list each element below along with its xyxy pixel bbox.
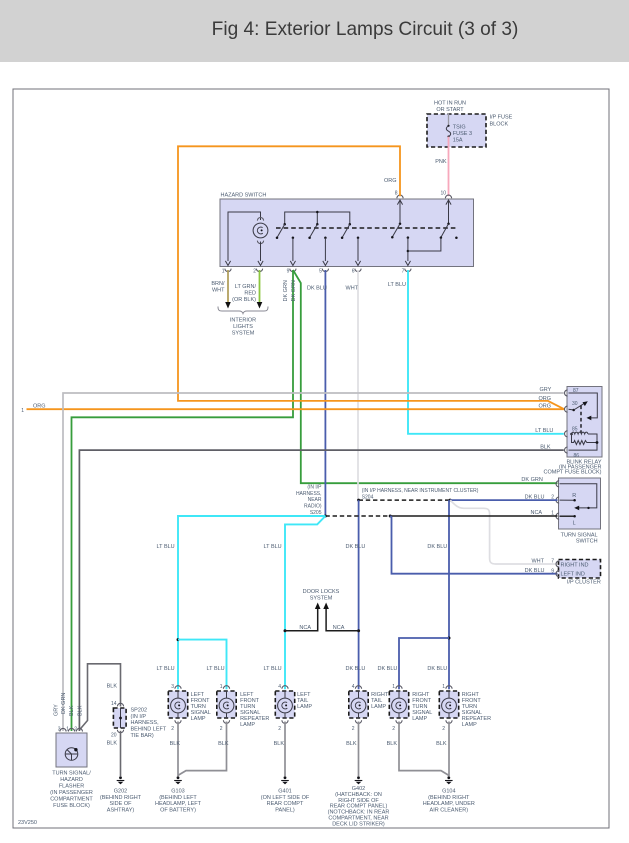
- svg-text:PANEL): PANEL): [275, 807, 295, 813]
- svg-text:LT BLU: LT BLU: [157, 666, 175, 672]
- indicator lamp inside hazard switch: [253, 218, 268, 244]
- svg-text:DK GRN: DK GRN: [521, 477, 542, 483]
- wire LT BLU from pin 7 to blink relay pin 85: [388, 270, 564, 434]
- svg-text:BLK: BLK: [69, 705, 75, 716]
- svg-text:I/P CLUSTER: I/P CLUSTER: [567, 580, 601, 586]
- svg-text:LT BLU: LT BLU: [535, 428, 553, 434]
- svg-text:G202: G202: [114, 789, 127, 795]
- wire BLK from SP202 to ground G202: [107, 731, 121, 776]
- splice S204 label: [362, 488, 479, 501]
- svg-text:5: 5: [319, 269, 322, 275]
- svg-text:R: R: [572, 493, 576, 499]
- label HOT IN RUN OR START: [434, 101, 466, 114]
- svg-text:LAMP: LAMP: [371, 704, 386, 710]
- svg-text:BLK: BLK: [346, 741, 357, 747]
- svg-text:BLK: BLK: [436, 741, 447, 747]
- pin 5 output leg: [323, 237, 328, 266]
- blink relay box: [567, 387, 602, 459]
- fuse value label TSIG FUSE 3 15A: [453, 124, 472, 143]
- relay pin 85 connector arc: [565, 431, 568, 437]
- pin 6 output leg: [355, 237, 360, 266]
- pin 1 down arrow: [225, 261, 230, 266]
- ground G402: [328, 776, 390, 827]
- hazard switch bottom pin connectors row: [222, 269, 411, 275]
- svg-text:SYSTEM: SYSTEM: [310, 596, 333, 602]
- svg-text:RIGHT IND: RIGHT IND: [561, 563, 589, 569]
- flasher pin 3 connector arc: [58, 727, 66, 733]
- right front turn signal lamp: [389, 684, 432, 732]
- wire NCA stub from LT BLU to door locks: [284, 603, 321, 633]
- svg-text:WHT: WHT: [212, 288, 225, 294]
- svg-text:INTERIOR: INTERIOR: [230, 318, 256, 324]
- svg-text:BLK: BLK: [218, 741, 229, 747]
- link wire contact10 to pin7 node: [408, 238, 441, 251]
- svg-text:COMPARTMENT: COMPARTMENT: [50, 797, 93, 803]
- svg-text:BLK: BLK: [107, 684, 118, 690]
- junction on DK BLU branch to right front TS lamp: [378, 637, 451, 690]
- svg-text:G103: G103: [171, 789, 184, 795]
- svg-text:10: 10: [440, 191, 446, 197]
- svg-text:(IN I/P: (IN I/P: [307, 485, 322, 491]
- ground G103: [155, 776, 202, 813]
- svg-text:14: 14: [111, 701, 117, 707]
- svg-text:2: 2: [442, 726, 445, 732]
- svg-text:ORG: ORG: [538, 404, 551, 410]
- svg-text:ORG: ORG: [538, 396, 551, 402]
- svg-text:7: 7: [551, 559, 554, 565]
- wire BRN/WHT from pin 1: [211, 270, 228, 303]
- svg-text:6: 6: [352, 269, 355, 275]
- ground G104: [423, 776, 475, 813]
- turn signal / hazard flasher box: [56, 733, 87, 767]
- relay pin 87 connector arc: [565, 390, 568, 396]
- pin 2 down arrow: [258, 261, 263, 266]
- wire DK BLU from S204 down to right front turn signal lamps: [427, 500, 449, 689]
- left tail lamp: [275, 684, 312, 732]
- wire DK BLU from S204 down to right tail lamp: [346, 500, 366, 689]
- I/P cluster pin 7 connector arc: [551, 559, 559, 568]
- fuse F-TSIG symbol: [446, 125, 450, 138]
- wire WHT from S204 to I/P cluster pin (RIGHT IND): [450, 500, 557, 564]
- svg-text:LEFT IND: LEFT IND: [561, 572, 585, 578]
- arrow to interior lights (pin 1): [225, 302, 231, 309]
- svg-text:G401: G401: [278, 789, 291, 795]
- wire DK BLU from S205 to I/P cluster pin (LEFT IND): [390, 516, 557, 574]
- svg-text:BLK: BLK: [78, 705, 84, 716]
- turn signal switch box: [559, 478, 601, 529]
- svg-text:HAZARD SWITCH: HAZARD SWITCH: [221, 193, 267, 199]
- wire BLK right front TS repeater lamp to ground G104: [436, 722, 449, 777]
- svg-text:23V250: 23V250: [18, 820, 37, 826]
- arrow to interior lights (pin 2): [257, 302, 263, 309]
- svg-text:9: 9: [551, 568, 554, 574]
- splice SP202: [111, 701, 167, 739]
- svg-text:TSIG: TSIG: [453, 124, 466, 130]
- wire BLK from blink relay pin 86 to flasher pin 2: [79, 445, 563, 732]
- label TURN SIGNAL SWITCH: [561, 532, 598, 544]
- title header bar: [0, 0, 629, 62]
- turn signal switch L contact: [560, 515, 576, 518]
- svg-text:OR START: OR START: [436, 107, 464, 113]
- svg-text:DK BLU: DK BLU: [427, 666, 447, 672]
- svg-text:DK BLU: DK BLU: [346, 544, 366, 550]
- relay coil upper between pins 85 wire: [569, 432, 598, 450]
- svg-text:FUSE 3: FUSE 3: [453, 131, 472, 137]
- svg-text:LT BLU: LT BLU: [264, 544, 282, 550]
- svg-text:TIE BAR): TIE BAR): [131, 733, 154, 739]
- svg-text:FUSE BLOCK): FUSE BLOCK): [53, 803, 90, 809]
- contact for pin 9: [276, 223, 286, 239]
- pin 10 feed leg with up arrow: [446, 200, 451, 225]
- svg-text:DK BLU: DK BLU: [378, 666, 398, 672]
- svg-text:(BEHIND RIGHT: (BEHIND RIGHT: [100, 795, 142, 801]
- svg-text:BLK: BLK: [170, 741, 181, 747]
- svg-text:(ON LEFT SIDE OF: (ON LEFT SIDE OF: [261, 795, 310, 801]
- svg-text:HEADLAMP, LEFT: HEADLAMP, LEFT: [155, 801, 202, 807]
- svg-text:SIDE OF: SIDE OF: [109, 801, 132, 807]
- svg-text:LT BLU: LT BLU: [264, 666, 282, 672]
- flasher pin 2 connector arc: [74, 727, 82, 733]
- svg-text:I/P FUSE: I/P FUSE: [490, 115, 513, 121]
- wire BLK left front TS lamp to ground G103: [170, 722, 181, 777]
- svg-text:GRY: GRY: [54, 704, 60, 716]
- flasher pin 1 connector arc: [66, 727, 74, 733]
- wire NCA stub from DK BLU to door locks: [323, 603, 360, 633]
- svg-text:9: 9: [287, 269, 290, 275]
- turn signal switch internal path from DK GRN pin: [560, 484, 597, 510]
- ground G202: [100, 776, 142, 813]
- svg-text:LT BLU: LT BLU: [157, 544, 175, 550]
- wire BLK right front TS lamp to ground G104: [387, 722, 449, 776]
- wire PNK from fuse to hazard switch pin 10: [435, 137, 448, 197]
- contact for pin 10: [440, 224, 449, 239]
- relay coil lower (resistor) branch: [572, 434, 599, 445]
- relay pin 30 connector arc: [565, 406, 568, 412]
- svg-text:HEADLAMP, UNDER: HEADLAMP, UNDER: [423, 801, 475, 807]
- hazard switch box: [220, 193, 474, 267]
- svg-text:LT BLU: LT BLU: [207, 666, 225, 672]
- svg-text:(BEHIND RIGHT: (BEHIND RIGHT: [428, 795, 470, 801]
- pin 8 feed leg with up arrow: [397, 200, 402, 225]
- svg-text:WHT: WHT: [531, 558, 544, 564]
- left front turn signal repeater lamp: [217, 684, 270, 732]
- wire ORG from hazard pin 8 over the top to blink relay pin 30: [178, 146, 564, 409]
- splice S205 dashed link: [324, 515, 392, 518]
- relay switch blade from pin 30: [569, 401, 588, 411]
- svg-text:2: 2: [352, 726, 355, 732]
- wire LT GRN/RED from pin 2: [232, 270, 259, 303]
- wire WHT from pin 6 to splice S204: [346, 270, 359, 500]
- label TURN SIGNAL/HAZARD FLASHER: [50, 771, 93, 810]
- svg-text:DK BLU: DK BLU: [525, 568, 545, 574]
- svg-text:2: 2: [253, 269, 256, 275]
- svg-text:LAMP: LAMP: [297, 704, 312, 710]
- svg-text:LAMP: LAMP: [191, 716, 206, 722]
- svg-text:(BEHIND LEFT: (BEHIND LEFT: [159, 795, 197, 801]
- svg-text:SP202: SP202: [131, 707, 148, 713]
- mechanical gang dashed line: [276, 227, 457, 229]
- wire LT BLU from S205 to left tail lamp: [264, 516, 326, 689]
- svg-text:LAMP: LAMP: [240, 722, 255, 728]
- svg-text:1: 1: [220, 684, 223, 690]
- TS switch pin (DK GRN) connector arc: [556, 481, 559, 487]
- svg-text:BLK: BLK: [107, 741, 118, 747]
- label DOOR LOCKS SYSTEM: [303, 589, 340, 602]
- svg-text:DK BLU: DK BLU: [307, 286, 327, 292]
- wire from HOT IN RUN into fuse: [448, 113, 450, 126]
- svg-text:RADIO): RADIO): [304, 504, 322, 510]
- svg-text:2: 2: [220, 726, 223, 732]
- left front turn signal lamp: [168, 684, 210, 732]
- TS switch pin 1 connector arc: [551, 510, 559, 519]
- label INTERIOR LIGHTS SYSTEM: [230, 318, 256, 337]
- wire GRY from blink relay pin 87 to flasher pin 3: [63, 387, 564, 731]
- TS switch pin 2 connector arc: [551, 495, 559, 504]
- contact for pin 5: [308, 223, 318, 239]
- svg-text:7: 7: [402, 269, 405, 275]
- svg-text:HARNESS,: HARNESS,: [131, 720, 160, 726]
- contact for pin 6: [341, 223, 351, 239]
- svg-text:ASHTRAY): ASHTRAY): [107, 807, 135, 813]
- svg-text:LT BLU: LT BLU: [388, 282, 406, 288]
- wire DK GRN B from pin 9 to turn signal switch: [291, 270, 558, 483]
- svg-text:1: 1: [21, 408, 24, 414]
- svg-text:(IN PASSENGER: (IN PASSENGER: [50, 790, 93, 796]
- svg-text:L: L: [573, 521, 576, 527]
- svg-text:Fig 4: Exterior Lamps Circuit: Fig 4: Exterior Lamps Circuit (3 of 3): [212, 19, 519, 40]
- svg-text:30: 30: [572, 401, 578, 407]
- wire DK GRN A from pin 9 to flasher rail: [72, 270, 294, 731]
- svg-text:ORG: ORG: [384, 178, 397, 184]
- hazard switch internal wire from pin1 to lamp top: [228, 212, 261, 261]
- wire DK BLU from S204 to TS switch pin 2: [450, 495, 557, 501]
- svg-text:DK BLU: DK BLU: [346, 666, 366, 672]
- splice S204 dashed link: [357, 499, 452, 502]
- svg-text:86: 86: [574, 453, 580, 459]
- svg-text:BLK: BLK: [274, 741, 285, 747]
- svg-text:85: 85: [572, 427, 578, 433]
- svg-text:TURN SIGNAL/: TURN SIGNAL/: [52, 771, 91, 777]
- wire ORG from left edge (node 1) to blink relay pin 30: [21, 404, 564, 415]
- svg-text:BLOCK: BLOCK: [490, 122, 509, 128]
- svg-text:15A: 15A: [453, 137, 463, 143]
- svg-text:LIGHTS: LIGHTS: [233, 324, 253, 330]
- pin 8 of hazard switch: [395, 191, 403, 199]
- wire DK BLU from pin 5 to splice S205: [307, 270, 327, 516]
- wire BLK left front TS repeater lamp to ground G103: [178, 722, 229, 776]
- svg-text:BEHIND LEFT: BEHIND LEFT: [131, 727, 167, 733]
- svg-text:HAZARD: HAZARD: [60, 777, 83, 783]
- right tail lamp: [349, 684, 389, 732]
- svg-text:G104: G104: [442, 789, 455, 795]
- svg-text:GRY: GRY: [539, 387, 551, 393]
- svg-text:NCA: NCA: [530, 510, 542, 516]
- right front turn signal repeater lamp: [439, 684, 491, 732]
- svg-text:1: 1: [442, 684, 445, 690]
- svg-text:LAMP: LAMP: [412, 716, 427, 722]
- svg-text:SWITCH: SWITCH: [576, 538, 598, 544]
- brace interior lights system: [218, 307, 268, 314]
- svg-text:1: 1: [222, 269, 225, 275]
- svg-text:DOOR LOCKS: DOOR LOCKS: [303, 589, 340, 595]
- svg-text:PNK: PNK: [435, 159, 447, 165]
- svg-text:2: 2: [392, 726, 395, 732]
- svg-text:NCA: NCA: [299, 625, 311, 631]
- pin 7 output leg from contact 8: [405, 236, 410, 265]
- svg-text:AIR CLEANER): AIR CLEANER): [430, 807, 469, 813]
- pin 9 output leg: [290, 237, 295, 266]
- turn signal switch R contact: [560, 499, 576, 502]
- relay stationary contact path from pin 87: [569, 393, 598, 420]
- wire LT BLU from S205 to left front lamps: [157, 516, 326, 689]
- svg-text:DK GRN: DK GRN: [61, 693, 67, 714]
- label BLINK RELAY (IN PASSENGER COMPT FUSE BLOCK): [544, 460, 602, 476]
- svg-text:(IN I/P HARNESS, NEAR INSTRUME: (IN I/P HARNESS, NEAR INSTRUMENT CLUSTER…: [362, 488, 479, 494]
- svg-text:4: 4: [278, 684, 281, 690]
- I/P cluster dashed box: [559, 560, 601, 579]
- svg-text:LAMP: LAMP: [462, 722, 477, 728]
- wire NCA from S205 to TS switch pin 1: [390, 510, 557, 516]
- svg-text:HOT IN RUN: HOT IN RUN: [434, 101, 466, 107]
- svg-text:DK GRN: DK GRN: [291, 280, 297, 301]
- I/P fuse block (dashed box): [427, 114, 513, 147]
- svg-text:RED: RED: [244, 291, 256, 297]
- svg-text:NCA: NCA: [333, 625, 345, 631]
- wire lamp bottom to pin 2: [260, 242, 262, 262]
- svg-text:BLK: BLK: [387, 741, 398, 747]
- svg-text:2: 2: [171, 726, 174, 732]
- svg-text:20: 20: [111, 733, 117, 739]
- wire BLK right tail lamp to ground G402: [346, 722, 358, 777]
- svg-text:WHT: WHT: [346, 286, 359, 292]
- svg-text:2: 2: [278, 726, 281, 732]
- svg-text:SYSTEM: SYSTEM: [232, 331, 255, 337]
- svg-text:LT GRN/: LT GRN/: [235, 284, 257, 290]
- svg-text:FLASHER: FLASHER: [59, 784, 84, 790]
- wire BLK left tail lamp to ground G401: [274, 722, 285, 777]
- svg-text:DK GRN: DK GRN: [283, 280, 289, 301]
- wire BLK from flasher pin 2 to splice SP202: [80, 664, 121, 730]
- svg-text:3: 3: [171, 684, 174, 690]
- internal bus feeding contacts 9/5/6: [285, 211, 350, 224]
- svg-text:BRN/: BRN/: [211, 281, 225, 287]
- svg-text:1: 1: [392, 684, 395, 690]
- svg-text:DECK LID STRIKER): DECK LID STRIKER): [332, 821, 385, 827]
- svg-text:COMPT FUSE BLOCK): COMPT FUSE BLOCK): [544, 469, 602, 475]
- svg-text:BLK: BLK: [540, 445, 551, 451]
- pin 10 of hazard switch: [440, 191, 451, 199]
- contact for pin 8: [391, 224, 400, 239]
- svg-text:(IN I/P: (IN I/P: [131, 714, 147, 720]
- svg-text:DK BLU: DK BLU: [427, 544, 447, 550]
- relay actuator dashed link: [580, 406, 582, 433]
- svg-text:OF BATTERY): OF BATTERY): [160, 807, 196, 813]
- junction on LT BLU branch to left front TS repeater lamp: [177, 638, 227, 689]
- I/P cluster pin 9 connector arc: [551, 568, 559, 577]
- relay pin 86 connector arc: [565, 447, 568, 453]
- splice S205 label: [296, 485, 322, 517]
- svg-text:REAR COMPT: REAR COMPT: [267, 801, 304, 807]
- svg-text:NEAR: NEAR: [308, 497, 322, 503]
- ground G401: [261, 776, 310, 813]
- svg-text:(OR BLK): (OR BLK): [232, 297, 256, 303]
- svg-text:DK BLU: DK BLU: [525, 495, 545, 501]
- svg-text:4: 4: [352, 684, 355, 690]
- stationary contact dot of pin 10 switch: [455, 237, 458, 240]
